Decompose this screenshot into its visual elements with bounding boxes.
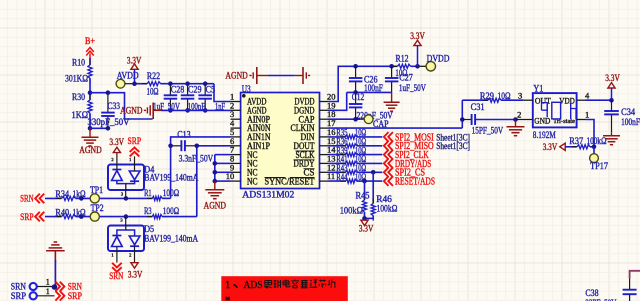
svg-text:RESET/ADS: RESET/ADS [395,177,435,188]
svg-text:2: 2 [517,110,521,120]
svg-text:AGND: AGND [79,146,102,156]
svg-text:3.3V: 3.3V [605,73,620,83]
svg-text:R29: R29 [480,92,494,102]
svg-text:C33: C33 [108,102,121,112]
svg-text:U3: U3 [242,85,251,95]
svg-text:1uF_50V: 1uF_50V [399,84,426,94]
svg-text:R12: R12 [396,55,409,65]
svg-text:1: 1 [129,157,131,162]
svg-text:1: 1 [46,287,50,296]
svg-text:C38: C38 [585,289,598,299]
svg-text:OUT: OUT [535,95,552,105]
svg-text:3.3V: 3.3V [128,270,143,280]
svg-text:R30: R30 [72,93,85,103]
svg-text:DVDD: DVDD [427,55,450,65]
svg-text:R37: R37 [569,137,583,147]
svg-text:R1: R1 [144,189,152,199]
svg-text:330pF_50V: 330pF_50V [88,118,130,128]
svg-text:SRP: SRP [68,292,82,301]
svg-text:C27: C27 [399,73,413,83]
svg-text:R45: R45 [356,191,370,201]
svg-text:B+: B+ [85,36,95,46]
svg-text:3.3V: 3.3V [543,142,558,152]
svg-text:C13: C13 [177,130,191,140]
svg-text:TP1: TP1 [90,186,103,196]
svg-text:C12: C12 [352,93,365,103]
svg-text:VDD: VDD [559,95,575,105]
svg-text:1: 1 [111,253,113,258]
svg-text:1: 1 [585,110,589,120]
svg-text:C31: C31 [471,103,485,113]
svg-text:2: 2 [129,253,131,258]
svg-text:8.192M: 8.192M [533,131,556,141]
svg-text:R40: R40 [55,208,69,218]
svg-text:SRP: SRP [128,137,142,147]
svg-text:2: 2 [111,157,113,162]
svg-text:BAV199_140mA: BAV199_140mA [144,174,198,184]
svg-text:R22: R22 [147,72,161,82]
svg-text:100kΩ: 100kΩ [340,206,363,216]
svg-text:3: 3 [518,90,522,100]
svg-text:R3: R3 [144,207,152,217]
svg-text:R34: R34 [55,190,69,200]
svg-text:ADS: ADS [244,280,263,291]
svg-text:R44: R44 [336,173,347,183]
svg-text:D5: D5 [144,225,154,235]
svg-text:1: 1 [46,278,50,287]
svg-text:BAV199_140mA: BAV199_140mA [144,235,198,245]
svg-text:10Ω: 10Ω [147,88,159,98]
svg-text:15PF_50V: 15PF_50V [472,127,504,137]
svg-text:R10: R10 [72,58,85,68]
svg-text:100kΩ: 100kΩ [587,137,607,147]
svg-text:1: 1 [225,280,230,291]
svg-text:TP17: TP17 [590,162,608,172]
svg-text:100Ω: 100Ω [163,207,179,217]
svg-text:ADS131M02: ADS131M02 [242,191,294,201]
svg-text:1KΩ: 1KΩ [72,111,89,121]
svg-text:3.3V: 3.3V [359,224,374,234]
svg-text:100kΩ: 100kΩ [376,205,397,215]
svg-text:C29: C29 [188,85,202,95]
svg-text:C5: C5 [206,85,216,95]
svg-text:100Ω: 100Ω [163,189,179,199]
svg-text:10Ω: 10Ω [498,92,511,102]
svg-text:3.3V: 3.3V [109,137,124,147]
svg-text:SRN: SRN [20,195,34,205]
svg-text:100nF: 100nF [621,118,640,128]
svg-text:3.3nF_50V: 3.3nF_50V [179,154,214,164]
svg-text:SRP: SRP [11,292,26,301]
svg-text:AGND: AGND [204,201,227,211]
svg-text:TP2: TP2 [91,204,104,214]
svg-text:SRN: SRN [109,272,123,282]
svg-text:AGND: AGND [225,72,248,82]
svg-text:SRP: SRP [20,213,34,223]
svg-text:301KΩ: 301KΩ [65,74,88,84]
svg-text:AGND: AGND [120,107,143,117]
svg-text:C28: C28 [171,85,185,95]
svg-text:Y1: Y1 [533,85,543,95]
svg-text:R46: R46 [376,195,392,205]
svg-text:NC: NC [247,176,258,186]
svg-text:Sheet1[3C]: Sheet1[3C] [436,141,470,151]
svg-text:C34: C34 [621,108,635,118]
